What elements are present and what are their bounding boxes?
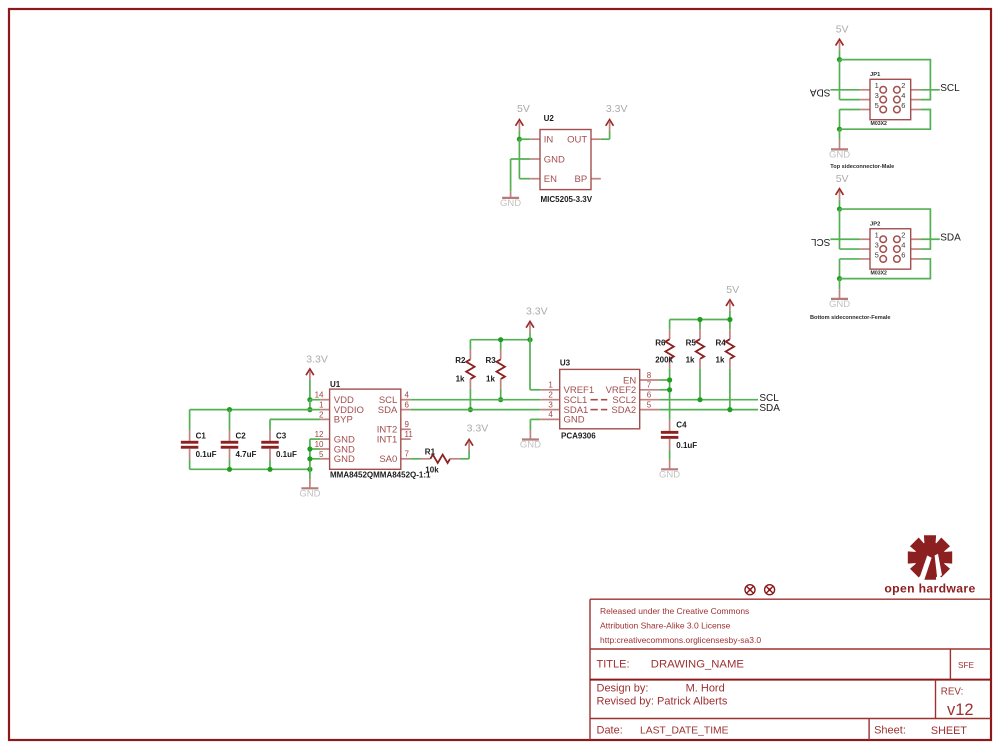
SFE box [958,661,974,670]
drill mark right [765,585,775,595]
svg-text:Top sideconnector-Male: Top sideconnector-Male [830,164,894,170]
wire C4 to ground [669,450,671,460]
svg-text:2: 2 [901,81,905,90]
svg-text:TITLE:: TITLE: [597,658,630,670]
node junction VDD [307,397,312,402]
svg-text:SDA: SDA [378,405,398,416]
svg-text:2: 2 [548,391,553,400]
wire U1 GND pins vertical [310,439,320,469]
svg-text:M03X2: M03X2 [871,121,888,127]
pin numbers U1 right [405,391,414,459]
wire C1 top drop [189,410,191,430]
title block outline [590,599,991,740]
pin 2 stub U3 (SCL1) [540,399,560,401]
supply 3.3V label (U3 left) [526,305,548,317]
svg-text:1: 1 [875,231,879,240]
capacitor C4 [661,420,679,450]
wire SDA to pin1 (JP1) [830,89,860,91]
wire BYP to C3 [270,419,320,430]
resistor R6 [665,329,673,368]
pin 2 stub JP2 [911,238,921,240]
pin 6 stub JP2 [911,258,921,260]
wire SCL to pin1 (JP2) [830,238,860,240]
svg-text:10: 10 [315,440,324,449]
svg-text:5V: 5V [726,284,739,296]
supply 3.3V label (R1) [467,423,489,435]
pin 3 stub U3 (SDA1) [540,409,560,411]
svg-text:1k: 1k [716,355,725,364]
svg-text:1k: 1k [486,374,495,383]
wire C1 bottom drop [189,460,191,470]
pin 4 stub JP1 [911,99,921,101]
label R1 [425,448,436,457]
net label SDA (bus) [759,403,780,414]
pin numbers U3 right [647,371,652,410]
node junction EN [667,377,672,382]
pin 6 stub JP1 [911,109,921,111]
wire junction to IN pin [519,138,530,140]
svg-text:7: 7 [647,381,652,390]
supply 5V label (pull-ups) [726,284,739,296]
label C3 [276,432,287,441]
svg-text:3: 3 [875,240,879,249]
refdes U3 [560,359,571,368]
svg-text:1k: 1k [456,374,465,383]
label R4 [716,339,727,348]
title row [597,658,745,670]
svg-text:R4: R4 [716,339,727,348]
svg-text:SHEET: SHEET [931,725,967,737]
svg-text:5: 5 [647,400,652,409]
svg-text:5: 5 [875,101,879,110]
label R6 [655,339,666,348]
svg-text:3: 3 [548,400,553,409]
wire 5V rail R4 R5 R6 [670,320,730,330]
wire 5V top rail to pin4 (JP2) [840,209,931,249]
pin 6 stub U1 (SDA) [401,409,411,411]
pin 4 stub JP2 [911,248,921,250]
svg-text:6: 6 [647,391,652,400]
pin 4 stub U1 (SCL) [401,399,411,401]
svg-text:REV:: REV: [941,687,964,698]
svg-text:R5: R5 [686,339,697,348]
node junction GND pin 5 [307,456,312,461]
svg-text:6: 6 [901,101,905,110]
label R3 [486,356,497,365]
svg-text:GND: GND [500,198,521,209]
label C4 [676,421,687,430]
svg-text:Design by:: Design by: [597,682,649,694]
svg-text:C1: C1 [196,432,207,441]
wire SA0 to R1 [411,458,421,460]
open hardware text [884,581,975,595]
svg-text:U2: U2 [544,114,555,123]
net label SDA (JP2) [940,232,961,243]
supply arrow 3.3V (U3 left) [526,322,534,333]
label C1 [196,432,207,441]
wire R5 to SCL row [699,369,701,400]
rev box [941,687,974,719]
pin 9 stub U1 (INT2) [401,428,411,430]
svg-text:GND: GND [564,415,585,426]
wire VDDIO rail to caps [190,409,321,411]
svg-text:0.1uF: 0.1uF [196,450,217,459]
node junction R3 top [498,337,503,342]
supply arrow 3.3V (R1) [465,440,473,451]
svg-text:5V: 5V [836,23,849,35]
value 0.1uF (C3) [276,450,297,459]
pin 1 stub U1 [320,409,329,411]
node junction GND bottom (JP2) [837,276,842,281]
node junction VDDIO [307,407,312,412]
pin 3 stub JP2 [860,248,870,250]
svg-text:0.1uF: 0.1uF [276,450,297,459]
label C2 [236,432,247,441]
svg-text:11: 11 [405,430,414,439]
svg-text:C2: C2 [236,432,247,441]
svg-text:JP2: JP2 [870,221,880,227]
accelerometer U1 body [330,389,401,469]
svg-text:8: 8 [647,371,652,380]
date row [597,724,968,736]
node junction R4 SDA [727,407,732,412]
level shifter U3 body [560,369,640,428]
wire R4 to SDA row [729,369,731,410]
supply 5V label (JP2) [836,173,849,185]
wire pin2 to SCL label (JP1) [921,89,940,91]
net label SCL (bus) [759,393,779,404]
wire GND bottom rail to pin6 (JP2) [840,259,931,279]
svg-text:v12: v12 [947,701,974,719]
voltage regulator U2 body [540,130,591,190]
svg-text:R1: R1 [425,448,436,457]
description label JP2 [810,315,891,321]
designer row [597,682,728,707]
resistor R3 [497,350,505,389]
supply 3.3V label (U2 output) [606,103,628,115]
wire SCL bus right [659,399,758,401]
svg-text:1k: 1k [686,355,695,364]
svg-text:LAST_DATE_TIME: LAST_DATE_TIME [640,725,729,736]
pin GND stub U2 [530,158,540,160]
pin 2 stub U1 [320,418,329,420]
pin 11 stub U1 (INT1) [401,438,411,440]
svg-text:GND: GND [544,154,565,165]
svg-text:Released under the Creative Co: Released under the Creative Commons [600,606,749,616]
net label SDA mirrored (JP1) [810,86,831,97]
svg-text:5: 5 [319,450,324,459]
svg-text:4: 4 [548,410,553,419]
pin numbers U1 left [315,391,324,459]
svg-text:http:creativecommons.orglicens: http:creativecommons.orglicensesby-sa3.0 [600,635,761,645]
resistor R4 [726,329,734,368]
svg-text:SA0: SA0 [379,454,397,465]
svg-text:Revised by: Patrick Alberts: Revised by: Patrick Alberts [597,696,728,708]
wire 5V arrow to IN junction [518,131,520,140]
capacitor C2 [221,430,239,460]
licence text [600,606,761,645]
pin 14 stub U1 [320,399,329,401]
svg-text:R2: R2 [455,356,466,365]
svg-text:14: 14 [315,391,324,400]
pin 12 stub U1 [320,438,329,440]
svg-text:SDA: SDA [810,86,831,97]
svg-text:SDA2: SDA2 [611,405,636,416]
svg-text:SDA: SDA [759,403,780,414]
svg-text:12: 12 [315,430,324,439]
svg-text:5: 5 [875,250,879,259]
node junction R2 SDA [468,407,473,412]
supply arrow 5V (JP1) [836,39,844,50]
svg-text:Sheet:: Sheet: [874,724,906,736]
node junction 5V/IN (U2) [517,137,522,142]
svg-text:3: 3 [875,91,879,100]
wire 5V arrow to junction (JP2) [839,200,841,209]
svg-text:1: 1 [319,401,324,410]
pin 5 stub JP2 [860,258,870,260]
wire GND bottom rail [190,468,310,470]
wire 3.3V rail R2 R3 [470,340,530,350]
refdes JP1 [870,72,881,78]
resistor R5 [696,329,704,368]
ground symbol (C4) [659,460,680,480]
svg-text:SDA: SDA [940,232,961,243]
net label SCL (JP1) [940,83,960,94]
pin 1 stub JP2 [860,238,870,240]
wire 3.3V to VREF1 [530,333,540,390]
wire 5V drop to pin3 (JP2) [840,209,861,249]
pin IN stub U2 [530,138,540,140]
capacitor C1 [181,430,199,460]
svg-text:6: 6 [405,400,410,409]
svg-text:C3: C3 [276,432,287,441]
ground symbol (JP2) [829,279,850,310]
svg-text:2: 2 [319,410,324,419]
pin 5 stub U3 (SDA2) [640,409,660,411]
svg-text:SCL: SCL [811,236,831,247]
wire R6 to EN VREF2 and C4 [659,369,669,420]
drill mark left [745,585,755,595]
wire C2 bottom drop [229,460,231,470]
node junction R5 SCL [697,397,702,402]
capacitor C3 [261,430,279,460]
wire pin5 to GND drop (JP2) [840,259,861,279]
svg-text:7: 7 [405,450,410,459]
svg-text:C4: C4 [676,421,687,430]
svg-text:R3: R3 [486,356,497,365]
wire R1 to 3.3V arrow [460,451,469,459]
value 1k (R4) [716,355,725,364]
pin 5 stub JP1 [860,109,870,111]
svg-text:3.3V: 3.3V [306,353,328,365]
value 0.1uF (C1) [196,450,217,459]
svg-text:Attribution Share-Alike 3.0 Li: Attribution Share-Alike 3.0 License [600,621,731,631]
supply 5V label (JP1) [836,23,849,35]
wire C3 bottom drop [269,460,271,470]
svg-text:GND: GND [829,299,850,310]
resistor R1 [421,455,460,463]
label R2 [455,356,466,365]
value 10k (R1) [425,466,439,475]
pin numbers JP1 [875,81,906,110]
wire 5V arrow to rail [729,311,731,320]
value M03X2 (JP1) [871,121,888,127]
node junction R4 top [727,317,732,322]
svg-text:0.1uF: 0.1uF [676,441,697,450]
wire 5V arrow to junction (JP1) [839,50,841,59]
svg-text:GND: GND [520,440,541,451]
node junction VREF2 [667,387,672,392]
value 1k (R3) [486,374,495,383]
wire C2 top drop [229,410,231,430]
svg-text:2: 2 [901,231,905,240]
ground symbol (U1) [299,469,320,499]
supply arrow 3.3V (U1) [306,369,314,380]
svg-text:4: 4 [901,240,905,249]
svg-text:SCL: SCL [940,83,960,94]
connector JP1 body [870,79,911,119]
svg-text:SFE: SFE [958,661,974,670]
node junction R5 top [697,317,702,322]
pin 7 stub U3 (VREF2) [640,389,660,391]
svg-text:1: 1 [548,381,553,390]
supply arrow 5V (JP2) [836,189,844,200]
pin 1 stub U3 (VREF1) [540,389,560,391]
wire pin2 to SDA label (JP2) [921,238,940,240]
pin 3 stub JP1 [860,99,870,101]
wire 3.3V arrow to VDD [309,380,311,400]
pin 10 stub U1 [320,448,329,450]
wire VDD junction to pin 14 [310,399,320,401]
wire pin5 to GND drop (JP1) [840,110,861,130]
node junction 5V top (JP2) [837,206,842,211]
node junction GND bottom (JP1) [837,127,842,132]
pin 8 stub U3 (EN) [640,379,660,381]
node junction C2 bottom [227,467,232,472]
wire OUT to 3.3V arrow [601,131,610,140]
wire VDD to VDDIO link [309,400,311,410]
ground symbol (JP1) [829,129,850,160]
svg-text:1: 1 [875,81,879,90]
net label SCL mirrored (JP2) [811,236,831,247]
supply 3.3V label (U1) [306,353,328,365]
svg-text:OUT: OUT [567,135,587,146]
svg-text:GND: GND [299,488,320,499]
pin 2 stub JP1 [911,89,921,91]
supply arrow 5V (pull-ups) [726,300,734,311]
svg-text:BYP: BYP [334,415,353,426]
value 0.1uF (C4) [676,441,697,450]
svg-text:3.3V: 3.3V [606,103,628,115]
node junction GND pin 10 [307,446,312,451]
svg-text:INT1: INT1 [377,434,398,445]
svg-text:M. Hord: M. Hord [686,682,725,694]
svg-text:4: 4 [901,91,905,100]
svg-text:JP1: JP1 [870,72,881,78]
wire SDA bus left [411,409,541,411]
svg-text:Date:: Date: [597,724,623,736]
value 200k (R6) [655,355,673,364]
svg-text:M03X2: M03X2 [871,271,888,277]
pin 7 stub U1 (SA0) [401,458,411,460]
svg-text:DRAWING_NAME: DRAWING_NAME [651,658,745,670]
connector JP2 body [870,229,911,269]
description label JP1 [830,164,894,170]
node junction 5V top (JP1) [837,57,842,62]
refdes JP2 [870,221,880,227]
svg-text:U3: U3 [560,359,571,368]
wire 5V drop to pin3 (JP1) [840,60,861,100]
open hardware logo [908,535,952,581]
refdes U1 [330,380,341,389]
svg-text:5V: 5V [517,103,530,115]
wire SCL bus left [411,399,541,401]
pin EN stub U2 [530,178,540,180]
pin 5 stub U1 [320,458,329,460]
pin numbers U3 left [548,381,553,420]
value 1k (R2) [456,374,465,383]
svg-text:R6: R6 [655,339,666,348]
svg-text:3.3V: 3.3V [467,423,489,435]
refdes U2 [544,114,555,123]
svg-text:4.7uF: 4.7uF [236,450,257,459]
node junction GND rail right [307,467,312,472]
wire 5V top rail to pin4 (JP1) [840,60,931,100]
svg-text:U1: U1 [330,380,341,389]
svg-text:5V: 5V [836,173,849,185]
value PCA9306 [561,431,596,440]
value MMA8452QMMA8452Q-1:1 [330,471,431,480]
wire R2 to SDA row [469,389,471,410]
pin 6 stub U3 (SCL2) [640,399,660,401]
svg-text:BP: BP [575,174,588,185]
wire GND pin to GND symbol (U2) [511,159,531,191]
ground symbol (U2) [500,191,521,209]
value 4.7uF (C2) [236,450,257,459]
pin numbers JP2 [875,231,906,260]
node junction C2 top [227,407,232,412]
svg-text:MMA8452QMMA8452Q-1:1: MMA8452QMMA8452Q-1:1 [330,471,431,480]
pin OUT stub U2 [591,138,601,140]
svg-text:6: 6 [901,250,905,259]
wire junction down to EN row [519,139,530,179]
pin 4 stub U3 (GND) [540,418,560,420]
wire R3 to SCL row [500,389,502,400]
pin 1 stub JP1 [860,89,870,91]
resistor R2 [466,350,474,389]
node junction C3 bottom [267,467,272,472]
node junction 3.3V arrow [527,337,532,342]
value 1k (R5) [686,355,695,364]
pin BP stub U2 [591,178,601,180]
supply 5V label (U2 input) [517,103,530,115]
svg-text:GND: GND [829,149,850,160]
wire GND bottom rail to pin6 (JP1) [840,110,931,130]
svg-text:10k: 10k [425,466,439,475]
wire SDA bus right [659,409,758,411]
svg-text:3.3V: 3.3V [526,305,548,317]
supply arrow 3.3V (U2 output) [606,120,614,131]
svg-text:200k: 200k [655,355,673,364]
svg-text:4: 4 [405,391,410,400]
value M03X2 (JP2) [871,271,888,277]
svg-text:Bottom sideconnector-Female: Bottom sideconnector-Female [810,315,891,321]
svg-text:9: 9 [405,420,410,429]
label R5 [686,339,697,348]
supply arrow 5V (U2 input) [516,120,524,131]
svg-text:open hardware: open hardware [884,581,975,595]
svg-text:GND: GND [659,469,680,480]
